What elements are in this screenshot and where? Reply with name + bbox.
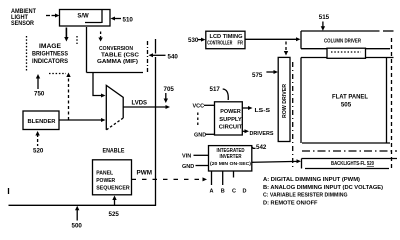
lcd timing controller box <box>206 31 245 49</box>
panel power sequencer box <box>93 160 132 195</box>
wire blender to mux <box>59 118 106 122</box>
node VCC <box>193 103 215 109</box>
label 750 arrow <box>34 74 45 98</box>
svg-text:517: 517 <box>210 86 221 93</box>
svg-text:LCD TIMING: LCD TIMING <box>210 34 243 40</box>
svg-text:IMAGE: IMAGE <box>39 44 61 50</box>
svg-text:705: 705 <box>164 86 175 93</box>
svg-text:S/W: S/W <box>77 14 89 20</box>
svg-text:ROW DRIVER: ROW DRIVER <box>282 84 288 118</box>
svg-text:GND: GND <box>182 164 194 170</box>
wire timing to column driver <box>245 37 301 41</box>
blender box <box>23 111 59 130</box>
svg-text:520: 520 <box>33 148 44 155</box>
svg-text:GND: GND <box>194 132 206 138</box>
svg-text:540: 540 <box>168 54 179 61</box>
svg-text:575: 575 <box>252 72 263 79</box>
wire psu to drivers <box>242 129 274 137</box>
svg-text:CIRCUIT: CIRCUIT <box>219 124 243 130</box>
legend <box>263 177 383 207</box>
interface box <box>327 48 366 58</box>
svg-text:500: 500 <box>72 223 83 230</box>
wire psu to LS-S <box>242 106 270 114</box>
svg-text:VCC: VCC <box>193 103 205 109</box>
flat panel box 505 <box>301 58 394 144</box>
pin A <box>210 171 214 195</box>
svg-text:CONVERSION: CONVERSION <box>99 46 133 52</box>
svg-text:GAMMA (MIF): GAMMA (MIF) <box>97 59 138 65</box>
svg-text:A: A <box>210 189 214 195</box>
conversion table box 540 <box>87 27 148 73</box>
svg-text:C: VARIABLE RESISTER DIMMING: C: VARIABLE RESISTER DIMMING <box>263 193 348 199</box>
label 525 <box>109 196 120 219</box>
svg-text:B: B <box>221 189 225 195</box>
label 542 <box>252 144 267 151</box>
node GND <box>194 132 215 138</box>
svg-text:FR: FR <box>238 40 244 46</box>
S/W box <box>60 10 111 27</box>
power supply circuit box 517 <box>215 102 244 135</box>
label 510 <box>111 17 134 24</box>
svg-text:SUPPLY: SUPPLY <box>219 117 242 123</box>
svg-text:515: 515 <box>319 14 330 21</box>
svg-text:510: 510 <box>123 17 134 24</box>
svg-text:505: 505 <box>341 102 352 109</box>
svg-text:(20 MIN ON-SEC): (20 MIN ON-SEC) <box>210 161 251 166</box>
wire dotted horizontal to up arrow <box>49 73 71 120</box>
svg-text:BACKLIGHTS-FL 520: BACKLIGHTS-FL 520 <box>331 161 374 167</box>
svg-text:750: 750 <box>34 91 45 98</box>
wire LVDS output <box>123 101 170 110</box>
wire inverter to backlight <box>252 159 301 163</box>
svg-text:CONTROLLER: CONTROLLER <box>207 40 232 46</box>
svg-text:POWER: POWER <box>96 178 115 184</box>
pin C <box>232 171 236 195</box>
backlight box 520 <box>302 159 398 169</box>
wire dashed psu inputs <box>197 113 199 127</box>
svg-text:INDICATORS: INDICATORS <box>32 59 68 65</box>
svg-text:542: 542 <box>256 144 267 151</box>
wire dotted stub <box>76 36 78 44</box>
wire dashed branch to row driver <box>284 42 288 56</box>
mux trapezoid <box>106 85 123 129</box>
wire vertical spine <box>9 39 157 205</box>
label 500 <box>72 206 83 230</box>
svg-text:A: DIGITAL DIMMING INPUT (PWM): A: DIGITAL DIMMING INPUT (PWM) <box>263 177 360 183</box>
ambient light sensor label <box>11 8 36 27</box>
label 575 <box>252 70 278 79</box>
label 520 dashed arrow <box>33 131 44 155</box>
svg-text:LVDS: LVDS <box>132 101 148 107</box>
wire conversion table to mux <box>93 73 106 98</box>
column driver box <box>301 31 394 49</box>
svg-text:SENSOR: SENSOR <box>11 20 34 27</box>
svg-text:525: 525 <box>109 211 120 218</box>
image brightness indicators label <box>32 44 68 65</box>
node GND <box>182 164 209 170</box>
integrated inverter box 542 <box>209 146 252 171</box>
pin B <box>221 171 225 195</box>
svg-text:PWM: PWM <box>137 171 153 177</box>
label 530 <box>188 37 206 44</box>
svg-text:INVERTER: INVERTER <box>220 154 242 160</box>
svg-text:TABLE (CSC: TABLE (CSC <box>101 53 140 59</box>
svg-text:COLUMN DRIVER: COLUMN DRIVER <box>324 39 361 45</box>
label 540 <box>149 53 179 60</box>
svg-text:B: ANALOG DIMMING INPUT (DC VO: B: ANALOG DIMMING INPUT (DC VOLTAGE) <box>263 185 383 191</box>
wire dashed S/W to conversion table <box>98 32 102 42</box>
svg-text:SEQUENCER: SEQUENCER <box>96 186 130 192</box>
row driver box <box>278 57 290 141</box>
svg-text:POWER: POWER <box>220 109 241 115</box>
svg-text:D: REMOTE ON/OFF: D: REMOTE ON/OFF <box>263 201 318 207</box>
wire S/W down to indicators <box>64 28 68 42</box>
label 705 <box>164 86 175 103</box>
wire dash-dot separator <box>302 150 397 152</box>
svg-text:LS-S: LS-S <box>255 108 271 114</box>
label 517 <box>210 86 229 100</box>
svg-text:PANEL: PANEL <box>96 171 114 177</box>
svg-text:D: D <box>243 189 247 195</box>
svg-text:BLENDER: BLENDER <box>28 119 56 125</box>
svg-text:530: 530 <box>188 37 199 44</box>
svg-text:DRIVERS: DRIVERS <box>250 131 274 137</box>
wire PWM dashed <box>132 171 208 182</box>
svg-text:VIN: VIN <box>182 154 191 160</box>
svg-text:BRIGHTNESS: BRIGHTNESS <box>32 52 68 58</box>
node VIN <box>182 154 209 160</box>
svg-text:ENABLE: ENABLE <box>103 149 125 155</box>
label 515 <box>319 14 330 31</box>
svg-text:FLAT PANEL: FLAT PANEL <box>332 95 368 101</box>
svg-text:INTEGRATED: INTEGRATED <box>217 148 245 154</box>
wire dashed lead sensor to S/W <box>46 14 60 18</box>
wire dotted left boundary <box>26 36 28 71</box>
wire dashed module boundary <box>293 38 392 169</box>
svg-text:C: C <box>232 189 236 195</box>
